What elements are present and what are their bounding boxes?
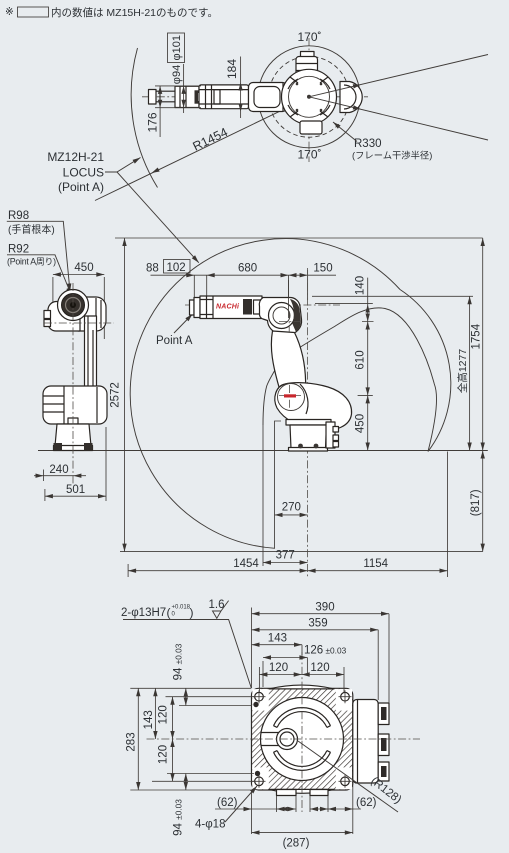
wrist block: [175, 86, 199, 107]
dim 270: [275, 514, 308, 516]
elbow housing: [259, 297, 301, 334]
base: [286, 420, 331, 426]
svg-text:390: 390: [315, 601, 334, 613]
R1454 locus arc: [131, 48, 157, 188]
dim 120 vert lower: [172, 739, 174, 781]
dim 240: [44, 427, 107, 501]
svg-text:94 ±0.03: 94 ±0.03: [173, 799, 185, 836]
170 deg limit ray upper: [309, 55, 488, 97]
dim 176: [159, 86, 161, 137]
svg-text:102: 102: [167, 262, 186, 274]
wrist disc (dark): [58, 290, 89, 321]
svg-text:377: 377: [276, 550, 295, 562]
svg-text:184: 184: [225, 59, 239, 79]
svg-text:φ94: φ94: [171, 65, 183, 84]
svg-text:450: 450: [355, 414, 367, 433]
dim phi94 [phi101]: [183, 64, 185, 113]
svg-text:1154: 1154: [363, 558, 388, 570]
inner ring arcs: [274, 708, 331, 771]
dim 450: [53, 274, 104, 276]
svg-text:143: 143: [268, 632, 287, 644]
tip cap: [149, 90, 157, 105]
dim 2572: [124, 238, 126, 552]
svg-text:270: 270: [282, 502, 301, 514]
svg-text:680: 680: [238, 263, 257, 275]
svg-text:1454: 1454: [233, 558, 259, 570]
svg-text:R330: R330: [354, 138, 382, 150]
bottom edge arc bulge: [269, 789, 334, 793]
svg-text:120: 120: [157, 705, 169, 724]
top dim row 88[102] 680 150: [151, 274, 337, 276]
forearm: [200, 296, 262, 319]
170 deg limit ray lower: [309, 97, 488, 140]
bottom tabs: [277, 790, 297, 796]
center opening: [261, 698, 344, 781]
svg-text:120: 120: [310, 662, 329, 674]
svg-text:2-φ13H7: 2-φ13H7: [121, 607, 166, 619]
dim column 140/610/450: [367, 278, 369, 451]
dim 1277 overall height: [469, 296, 471, 450]
J1 hub: [282, 69, 337, 124]
swing circle solid: [258, 46, 360, 148]
dim 501: [44, 489, 46, 501]
front boundary vertical (377 ref): [262, 425, 264, 566]
svg-text:(62): (62): [217, 797, 238, 809]
envelope inner rear boundary: [263, 308, 437, 452]
dim (287): [252, 832, 353, 834]
small tab dims: [280, 807, 288, 811]
forearm: [199, 85, 249, 109]
270 ref vertical: [275, 421, 282, 549]
wrist flange: [190, 300, 195, 315]
dim (62) left: [215, 808, 283, 810]
svg-text:※: ※: [5, 6, 14, 18]
centerlines: [72, 283, 74, 485]
svg-text:(: (: [167, 606, 171, 620]
hub bottom box: [300, 121, 322, 134]
note: values-in-box are for MZ15H-21: [5, 6, 218, 19]
svg-text:4-φ18: 4-φ18: [195, 819, 225, 831]
svg-text:0: 0: [172, 612, 176, 618]
leader to middle view locus circle: [117, 172, 199, 263]
dim 390: [252, 613, 390, 615]
J2 axis cross: [279, 385, 301, 408]
robot arm top view: [149, 52, 363, 135]
base: [55, 424, 91, 446]
dim phi94/176 extension lines: [155, 86, 201, 108]
R330 frame interference circle dashed: [269, 56, 350, 137]
arm column: [85, 316, 97, 414]
svg-text:R92: R92: [8, 244, 29, 256]
svg-text:240: 240: [49, 464, 68, 476]
rear motor bump: [340, 82, 362, 113]
svg-text:170˚: 170˚: [297, 30, 321, 44]
centerlines: [147, 738, 421, 740]
svg-text:(手首根本): (手首根本): [8, 223, 55, 236]
R1454 radius line: [95, 102, 300, 201]
corner holes 4-phi18: [255, 692, 350, 785]
left extension lines: [130, 688, 254, 790]
svg-text:143: 143: [143, 710, 155, 729]
shoulder block: [43, 386, 107, 424]
J3 axis cross: [279, 311, 300, 332]
motor bump top: [301, 52, 315, 58]
svg-text:+0.018: +0.018: [172, 605, 191, 611]
neck link: [287, 85, 302, 110]
connector box right: [353, 700, 378, 784]
dowel pins 2-phi13: [253, 702, 258, 707]
dim 184: [240, 57, 242, 119]
svg-text:283: 283: [126, 732, 138, 751]
svg-text:1754: 1754: [471, 323, 483, 349]
svg-text:94 ±0.03: 94 ±0.03: [173, 643, 185, 680]
dim 126: [263, 657, 307, 659]
svg-text:±0.03: ±0.03: [326, 646, 347, 656]
dim 120 120: [259, 674, 344, 676]
svg-text:(Point A周り): (Point A周り): [7, 257, 56, 267]
svg-text:2572: 2572: [110, 382, 122, 408]
svg-text:R98: R98: [8, 210, 29, 222]
svg-text:501: 501: [66, 484, 85, 496]
centerline horizontal arm: [142, 96, 368, 98]
svg-text:): ): [190, 606, 194, 620]
svg-text:120: 120: [269, 662, 288, 674]
floor line: [38, 450, 488, 452]
svg-text:170˚: 170˚: [297, 148, 321, 162]
svg-text:140: 140: [355, 276, 367, 295]
centerline vertical J1: [308, 38, 310, 162]
top dims: [251, 608, 253, 689]
svg-text:120: 120: [157, 745, 169, 764]
svg-text:R1454: R1454: [191, 125, 230, 154]
J1 centerline: [307, 268, 309, 577]
svg-text:359: 359: [308, 617, 327, 629]
dim 359: [252, 629, 379, 631]
R128 swing radius: [298, 741, 398, 812]
svg-text:Point A: Point A: [156, 335, 193, 347]
J4 motor dark blocks: [243, 299, 252, 315]
svg-text:LOCUS: LOCUS: [63, 166, 104, 180]
upper arm link: [271, 331, 305, 393]
svg-text:(フレーム干渉半径): (フレーム干渉半径): [352, 150, 432, 161]
corner clear squares: [252, 689, 268, 711]
key slot: [261, 733, 279, 746]
svg-text:126: 126: [304, 645, 323, 657]
dim 143 vert: [154, 688, 156, 739]
svg-text:MZ12H-21: MZ12H-21: [47, 150, 104, 164]
svg-text:150: 150: [313, 263, 332, 275]
svg-text:450: 450: [74, 262, 93, 274]
flange phi94: [156, 91, 175, 102]
svg-text:(62): (62): [356, 797, 377, 809]
dim 1454 / 1154 row: [128, 570, 447, 572]
svg-text:φ101: φ101: [171, 35, 183, 61]
dim 94 lower: [185, 774, 187, 791]
front view body: [78, 297, 106, 331]
dim 283: [137, 688, 139, 790]
J2 shoulder assembly: [275, 383, 352, 431]
robot top extension line (1277): [312, 295, 473, 297]
svg-text:内の数値は MZ15H-21のものです。: 内の数値は MZ15H-21のものです。: [51, 6, 218, 19]
dim (817): [482, 451, 484, 552]
top edge arc bulge: [269, 685, 334, 689]
dim 94 upper: [185, 688, 187, 705]
dim (62) right: [321, 808, 361, 810]
svg-text:(817): (817): [470, 489, 482, 516]
dim 377: [263, 562, 308, 564]
svg-text:88: 88: [146, 263, 159, 275]
svg-text:(Point A): (Point A): [58, 180, 104, 194]
svg-text:NACHi: NACHi: [216, 304, 240, 311]
envelope outer rear arc: [400, 290, 451, 452]
dim 120 vert upper: [172, 697, 174, 739]
svg-text:全高1277: 全高1277: [456, 349, 469, 394]
envelope bottom tangent line: [120, 551, 483, 553]
envelope main circle (Point A locus): [130, 239, 400, 549]
svg-text:610: 610: [355, 350, 367, 369]
svg-text:176: 176: [146, 112, 160, 132]
elbow housing: [249, 83, 288, 112]
dim 1754: [482, 238, 484, 451]
dim 143: [252, 644, 303, 646]
base plate hatched: [252, 688, 353, 790]
envelope top tangent line: [115, 237, 483, 239]
bottom extension lines: [252, 783, 353, 834]
arm centerline: [185, 304, 340, 306]
svg-text:(287): (287): [283, 838, 310, 850]
